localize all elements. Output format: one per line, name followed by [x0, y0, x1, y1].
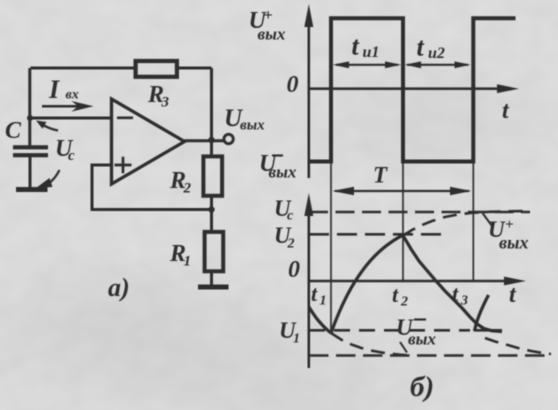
ground (below R1): [198, 285, 229, 290]
svg-text:+: +: [264, 7, 273, 24]
svg-text:и1: и1: [363, 44, 380, 61]
capacitor voltage curve: charge t1 to t2: [331, 236, 403, 334]
graph1 y-axis: [304, 4, 313, 178]
op-amp non-inverting input plus sign: [115, 157, 132, 174]
thin vertical at t2: [402, 162, 404, 282]
op-amp U1 triangle: [112, 99, 185, 184]
svg-text:t: t: [311, 281, 318, 306]
svg-text:t: t: [417, 33, 425, 62]
svg-text:+: +: [505, 217, 514, 233]
wire: capacitor bottom to ground: [29, 155, 32, 187]
svg-text:t: t: [352, 32, 360, 61]
svg-text:3: 3: [460, 294, 468, 309]
svg-text:1: 1: [184, 254, 192, 270]
svg-text:0: 0: [288, 257, 300, 283]
svg-text:I: I: [48, 75, 60, 104]
svg-text:t: t: [392, 282, 399, 307]
label t1 (graph2): [311, 281, 327, 309]
wire: top feedback wire left segment: [31, 67, 136, 70]
label Iвх: [48, 75, 79, 104]
capacitor voltage curve: initial decay to t1: [309, 307, 331, 333]
svg-text:вых: вых: [258, 25, 286, 44]
resistor R1: [205, 232, 224, 271]
dashed level U2: [309, 233, 441, 236]
svg-text:c: c: [287, 209, 294, 224]
thin vertical at t3: [472, 162, 474, 282]
svg-text:3: 3: [161, 95, 170, 111]
label Uвых (circuit output): [224, 105, 265, 134]
graph1 x-axis: [309, 84, 519, 93]
resistor R3: [136, 61, 177, 77]
label t3 (graph2): [452, 281, 468, 309]
leader line to U+вых label: [483, 213, 493, 226]
thin vertical at t1: [330, 162, 332, 333]
node: feedback divider junction dot: [208, 206, 214, 212]
svg-text:а): а): [108, 273, 130, 302]
svg-text:1: 1: [320, 294, 327, 309]
square wave Uвых output: [309, 18, 516, 161]
label R2: [169, 168, 192, 197]
dimension arrow T: [332, 187, 471, 195]
graph2 y-axis: [304, 193, 313, 368]
label R3: [147, 82, 170, 111]
svg-text:c: c: [68, 148, 75, 164]
svg-text:2: 2: [287, 237, 295, 252]
wire: op-amp output to terminal: [185, 139, 224, 142]
svg-text:2: 2: [183, 181, 192, 197]
curve: steep rise after t3: [475, 295, 489, 331]
resistor R2: [203, 156, 222, 195]
dashed curve: decay continuation after t3: [485, 338, 551, 354]
wire: R2 to R1: [210, 196, 213, 231]
label U-вых (graph1 bottom): [259, 151, 297, 182]
label U-вых (graph2 bottom): [396, 315, 436, 349]
voltage arc arrow Uc upper: [36, 121, 58, 131]
solid U1 segment after t3: [474, 329, 502, 332]
label t2 (graph2): [392, 282, 408, 310]
svg-text:C: C: [5, 118, 22, 144]
svg-text:0: 0: [287, 72, 299, 98]
voltage arc arrow Uc lower: [36, 170, 60, 188]
svg-text:вых: вых: [499, 233, 529, 253]
svg-text:вх: вх: [66, 88, 79, 103]
svg-text:2: 2: [400, 295, 408, 310]
svg-text:вых: вых: [240, 118, 265, 134]
capacitor voltage curve: discharge t2 to t3: [403, 236, 502, 332]
dimension arrow tи1: [333, 61, 401, 68]
label tи1: [352, 32, 380, 62]
dashed level U-вых bottom: [309, 354, 551, 357]
label tи2: [417, 33, 445, 63]
label U+вых (graph2 right): [488, 217, 529, 253]
wire: output node to R2: [210, 140, 213, 155]
label U1: [279, 318, 300, 347]
op-amp inverting input minus sign: [117, 116, 133, 119]
label U2: [274, 223, 295, 252]
leader line to U-вых label: [400, 342, 407, 353]
label Uc (graph2): [274, 196, 294, 224]
label U+вых (graph1 top): [249, 7, 286, 44]
dimension arrow tи2: [405, 61, 471, 68]
svg-text:t: t: [452, 281, 459, 306]
node A: inverting input junction dot: [27, 115, 33, 121]
svg-text:и2: и2: [428, 45, 445, 62]
wire: inverting input: [30, 117, 111, 120]
ground (below C): [16, 187, 48, 192]
wire: left vertical from top wire to node A: [28, 68, 31, 147]
dashed level U1: [309, 329, 470, 332]
svg-text:вых: вых: [408, 330, 436, 349]
dashed level Uc: [309, 211, 530, 214]
wire: right vertical from R3 to output node: [210, 68, 213, 140]
dashed curve: charge continuation toward Uc: [403, 211, 529, 236]
node: output junction dot: [208, 137, 214, 143]
wire: R1 to ground: [210, 271, 213, 285]
graph2 x-axis: [309, 277, 526, 286]
svg-text:б): б): [410, 371, 434, 403]
wire: non-inverting input feedback loop: [92, 165, 212, 210]
label Uc (circuit): [55, 136, 75, 164]
minus of U-вых graph2: [414, 318, 426, 320]
wire: top feedback wire right segment: [177, 67, 212, 70]
current arrow Iвх: [42, 101, 94, 112]
dashed curve: decay continuation from t1: [331, 333, 411, 356]
label R1: [169, 241, 191, 270]
svg-text:вых: вых: [269, 163, 297, 182]
minus of U-вых graph1: [272, 154, 283, 156]
svg-text:T: T: [373, 163, 388, 188]
capacitor C plates: [13, 147, 48, 155]
output terminal circle Uвых: [224, 134, 233, 143]
svg-text:1: 1: [293, 332, 300, 347]
